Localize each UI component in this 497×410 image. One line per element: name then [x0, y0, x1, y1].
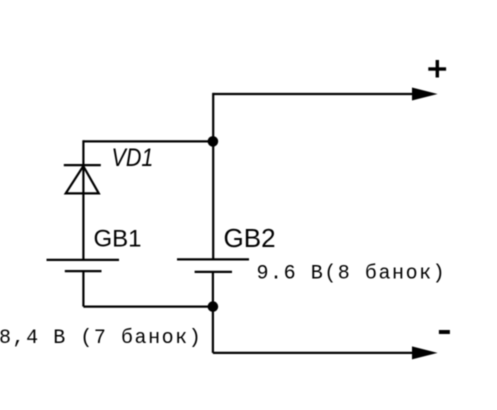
svg-text:8,4 В (7 банок): 8,4 В (7 банок) [0, 327, 202, 350]
svg-text:VD1: VD1 [112, 143, 154, 171]
svg-text:9.6 В(8 банок): 9.6 В(8 банок) [257, 263, 447, 286]
svg-text:GB1: GB1 [94, 225, 142, 252]
svg-text:GB2: GB2 [224, 223, 276, 253]
